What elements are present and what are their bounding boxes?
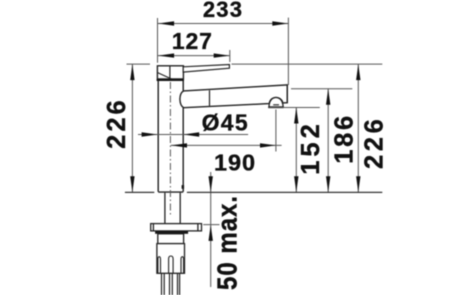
svg-text:190: 190 — [214, 149, 256, 175]
svg-text:233: 233 — [203, 0, 243, 22]
svg-text:152: 152 — [297, 120, 325, 175]
svg-text:186: 186 — [330, 113, 358, 164]
svg-text:127: 127 — [172, 28, 213, 54]
svg-text:Ø45: Ø45 — [202, 110, 249, 136]
svg-text:226: 226 — [103, 97, 131, 149]
svg-text:226: 226 — [361, 116, 389, 169]
svg-text:50 max.: 50 max. — [213, 195, 243, 290]
